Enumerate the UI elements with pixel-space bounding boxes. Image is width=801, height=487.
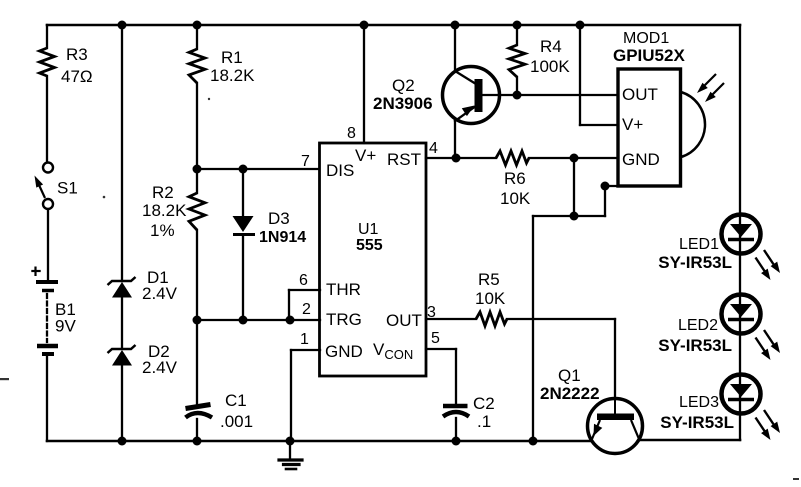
svg-text:10K: 10K [475, 289, 506, 308]
svg-text:1%: 1% [150, 221, 175, 240]
svg-text:DIS: DIS [326, 161, 354, 180]
svg-text:Q1: Q1 [558, 366, 581, 385]
svg-text:V+: V+ [622, 115, 643, 134]
svg-text:THR: THR [326, 280, 361, 299]
svg-text:2.4V: 2.4V [142, 284, 178, 303]
svg-text:GPIU52X: GPIU52X [613, 46, 685, 65]
svg-text:555: 555 [356, 237, 383, 254]
svg-text:R1: R1 [221, 48, 243, 67]
svg-text:LED1: LED1 [679, 236, 719, 253]
svg-text:C1: C1 [225, 391, 247, 410]
svg-text:3: 3 [427, 304, 436, 321]
svg-text:9V: 9V [55, 317, 76, 336]
svg-text:SY-IR53L: SY-IR53L [658, 253, 732, 272]
svg-text:TRG: TRG [326, 310, 362, 329]
svg-text:2.4V: 2.4V [142, 358, 178, 377]
svg-text:LED3: LED3 [679, 394, 719, 411]
svg-text:D3: D3 [268, 209, 290, 228]
svg-text:V+: V+ [355, 146, 376, 165]
svg-text:MOD1: MOD1 [623, 30, 669, 47]
svg-text:SY-IR53L: SY-IR53L [658, 336, 732, 355]
svg-text:8: 8 [347, 125, 356, 142]
svg-text:100K: 100K [530, 57, 570, 76]
svg-text:R2: R2 [152, 183, 174, 202]
svg-text:10K: 10K [500, 189, 531, 208]
svg-text:GND: GND [325, 342, 363, 361]
svg-text:1: 1 [300, 331, 309, 348]
svg-text:OUT: OUT [386, 311, 422, 330]
svg-text:SY-IR53L: SY-IR53L [660, 413, 734, 432]
svg-text:Q2: Q2 [392, 76, 415, 95]
svg-text:R4: R4 [540, 37, 562, 56]
svg-text:LED2: LED2 [678, 317, 718, 334]
svg-text:R5: R5 [478, 270, 500, 289]
svg-text:R3: R3 [66, 45, 88, 64]
svg-text:18.2K: 18.2K [210, 66, 255, 85]
svg-text:OUT: OUT [622, 85, 658, 104]
svg-text:6: 6 [299, 272, 308, 289]
svg-text:1N914: 1N914 [259, 229, 306, 246]
svg-text:2N3906: 2N3906 [373, 94, 433, 113]
svg-text:C2: C2 [473, 394, 495, 413]
svg-text:R6: R6 [504, 169, 526, 188]
svg-text:RST: RST [387, 150, 421, 169]
svg-text:GND: GND [622, 150, 660, 169]
svg-text:.001: .001 [220, 412, 253, 431]
svg-text:7: 7 [301, 153, 310, 170]
svg-text:2: 2 [302, 301, 311, 318]
svg-text:2N2222: 2N2222 [540, 384, 600, 403]
svg-text:.1: .1 [477, 412, 491, 431]
svg-text:U1: U1 [358, 221, 379, 238]
svg-text:5: 5 [431, 330, 440, 347]
svg-text:4: 4 [429, 140, 438, 157]
svg-text:S1: S1 [57, 179, 78, 198]
svg-text:47Ω: 47Ω [61, 67, 93, 86]
svg-text:18.2K: 18.2K [142, 201, 187, 220]
